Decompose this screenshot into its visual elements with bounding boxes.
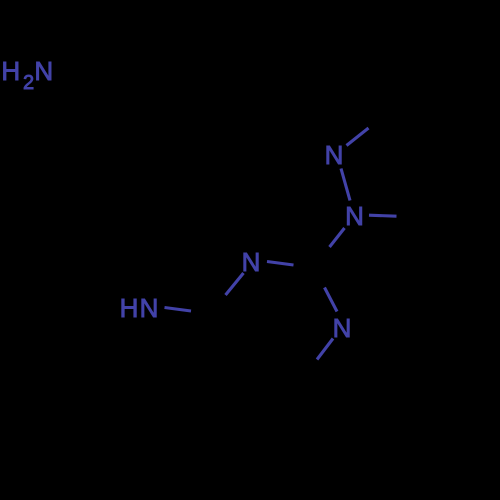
bond N1-C6 pyrimidine half bbox=[317, 339, 333, 360]
bond HN-C4 half bbox=[165, 308, 192, 312]
svg-text:N: N bbox=[325, 140, 344, 170]
bond N1-C5 pyrazole half bbox=[369, 215, 397, 216]
svg-text:H: H bbox=[120, 293, 139, 323]
svg-text:H: H bbox=[1, 56, 20, 86]
svg-text:N: N bbox=[333, 313, 352, 343]
svg-text:N: N bbox=[34, 56, 53, 86]
bond N1-N2 pyrazole bbox=[341, 169, 350, 201]
amine HN label bbox=[120, 293, 159, 323]
amine group H2N (exocyclic primary amine) bbox=[1, 56, 53, 94]
svg-text:2: 2 bbox=[23, 72, 34, 94]
svg-text:N: N bbox=[140, 293, 159, 323]
bond N3-C4 pyrimidine half bbox=[226, 273, 244, 295]
svg-text:N: N bbox=[242, 247, 261, 277]
bond N3-C2 pyrimidine half bbox=[267, 262, 294, 266]
bond C2-N1 pyrimidine half bbox=[325, 288, 338, 312]
bond N2-C3 pyrazole half bbox=[347, 128, 369, 146]
bond N1-C2 link half bbox=[330, 228, 345, 247]
svg-text:N: N bbox=[345, 201, 364, 231]
